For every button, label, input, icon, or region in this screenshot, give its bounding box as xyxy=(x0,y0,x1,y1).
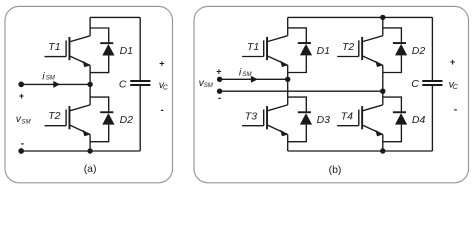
svg-text:(a): (a) xyxy=(84,163,97,175)
svg-text:T3: T3 xyxy=(245,110,257,122)
svg-text:D4: D4 xyxy=(412,114,426,126)
svg-text:-: - xyxy=(21,138,24,149)
svg-text:D2: D2 xyxy=(120,114,134,126)
svg-text:C: C xyxy=(453,84,459,91)
svg-text:D2: D2 xyxy=(412,45,426,57)
svg-text:+: + xyxy=(450,57,455,67)
svg-text:SM: SM xyxy=(204,82,214,89)
svg-text:C: C xyxy=(411,78,419,90)
svg-text:D1: D1 xyxy=(120,45,133,57)
svg-text:C: C xyxy=(163,85,169,92)
svg-text:+: + xyxy=(19,91,24,101)
svg-text:T1: T1 xyxy=(48,41,60,53)
svg-text:T2: T2 xyxy=(342,41,354,53)
svg-text:SM: SM xyxy=(46,75,56,82)
svg-text:SM: SM xyxy=(242,71,252,78)
svg-text:+: + xyxy=(216,67,221,77)
svg-text:-: - xyxy=(160,105,163,116)
svg-text:T1: T1 xyxy=(247,41,259,53)
svg-text:-: - xyxy=(454,105,457,116)
svg-text:C: C xyxy=(119,79,127,91)
svg-text:T2: T2 xyxy=(48,110,60,122)
svg-text:D1: D1 xyxy=(317,45,330,57)
svg-text:T4: T4 xyxy=(341,111,353,123)
svg-text:SM: SM xyxy=(21,119,31,126)
svg-text:+: + xyxy=(159,58,164,68)
svg-text:-: - xyxy=(218,93,221,104)
svg-text:(b): (b) xyxy=(329,164,342,176)
svg-text:D3: D3 xyxy=(317,114,331,126)
